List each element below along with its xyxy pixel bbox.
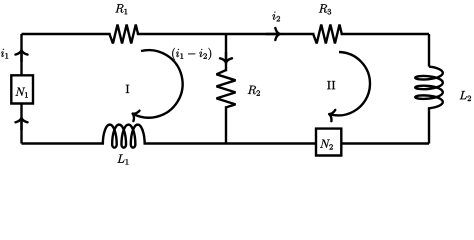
- current arrow below N1 shaft (pointing up): [20, 119, 22, 130]
- current arrow below N1 head: [15, 118, 27, 122]
- label I (left mesh): [126, 85, 129, 93]
- wire: right segment top (node B down to L2): [428, 34, 430, 67]
- current arrow (i1-i2) shaft (middle branch, pointing down): [225, 52, 227, 62]
- resistor R1 (zigzag body): [109, 24, 138, 43]
- wire: bottom-right segment (N2 to node C): [341, 142, 429, 144]
- label (i1 - i2): [172, 48, 175, 60]
- label N1: [15, 88, 25, 96]
- wire: middle branch (mid junction down to bottom wire): [225, 34, 227, 144]
- label R2: [248, 86, 256, 94]
- label R1: [115, 4, 123, 12]
- mesh current II arc (clockwise arrow in right mesh): [330, 52, 370, 115]
- current arrow i2 head: [275, 28, 279, 40]
- label L1: [117, 155, 124, 163]
- mesh current II arc head: [327, 108, 335, 121]
- label i2: [272, 12, 275, 20]
- inductor L2 (coil body): [415, 67, 443, 111]
- wire: top-left segment (node A to R1 to mid junction): [22, 33, 227, 35]
- wire: top-right segment (mid junction to R3 to node B): [226, 33, 429, 35]
- label R3: [319, 4, 327, 12]
- wire: right segment bottom (L2 down to node C): [428, 110, 430, 143]
- resistor R3 (zigzag body): [313, 24, 342, 43]
- two-port N1 (box outline): [11, 75, 33, 103]
- wire: bottom-left segment (node D through L1 to mid-bottom junction): [22, 142, 227, 144]
- current arrow i1 head: [15, 50, 27, 54]
- current arrow (i1-i2) head: [220, 58, 232, 62]
- label i1: [1, 49, 4, 57]
- mesh current I arc (clockwise arrow in left mesh): [134, 50, 183, 118]
- inductor L1 (coil body): [103, 125, 145, 148]
- current arrow i1 shaft (left branch, above N1, pointing up): [20, 51, 22, 62]
- mesh current I arc head: [130, 108, 140, 121]
- two-port N2 (box outline): [316, 129, 341, 156]
- current arrow i2 shaft (top wire, pointing right): [266, 33, 279, 35]
- label N2: [320, 140, 330, 148]
- wire: left segment top (node A down to N1): [20, 34, 22, 75]
- wire: bottom segment (mid-bottom junction to N2): [226, 142, 316, 144]
- label L2: [460, 91, 467, 99]
- label II (right mesh): [327, 81, 330, 89]
- wire: left segment bottom (N1 down to node D): [20, 103, 22, 143]
- resistor R2 (zigzag body): [216, 70, 235, 107]
